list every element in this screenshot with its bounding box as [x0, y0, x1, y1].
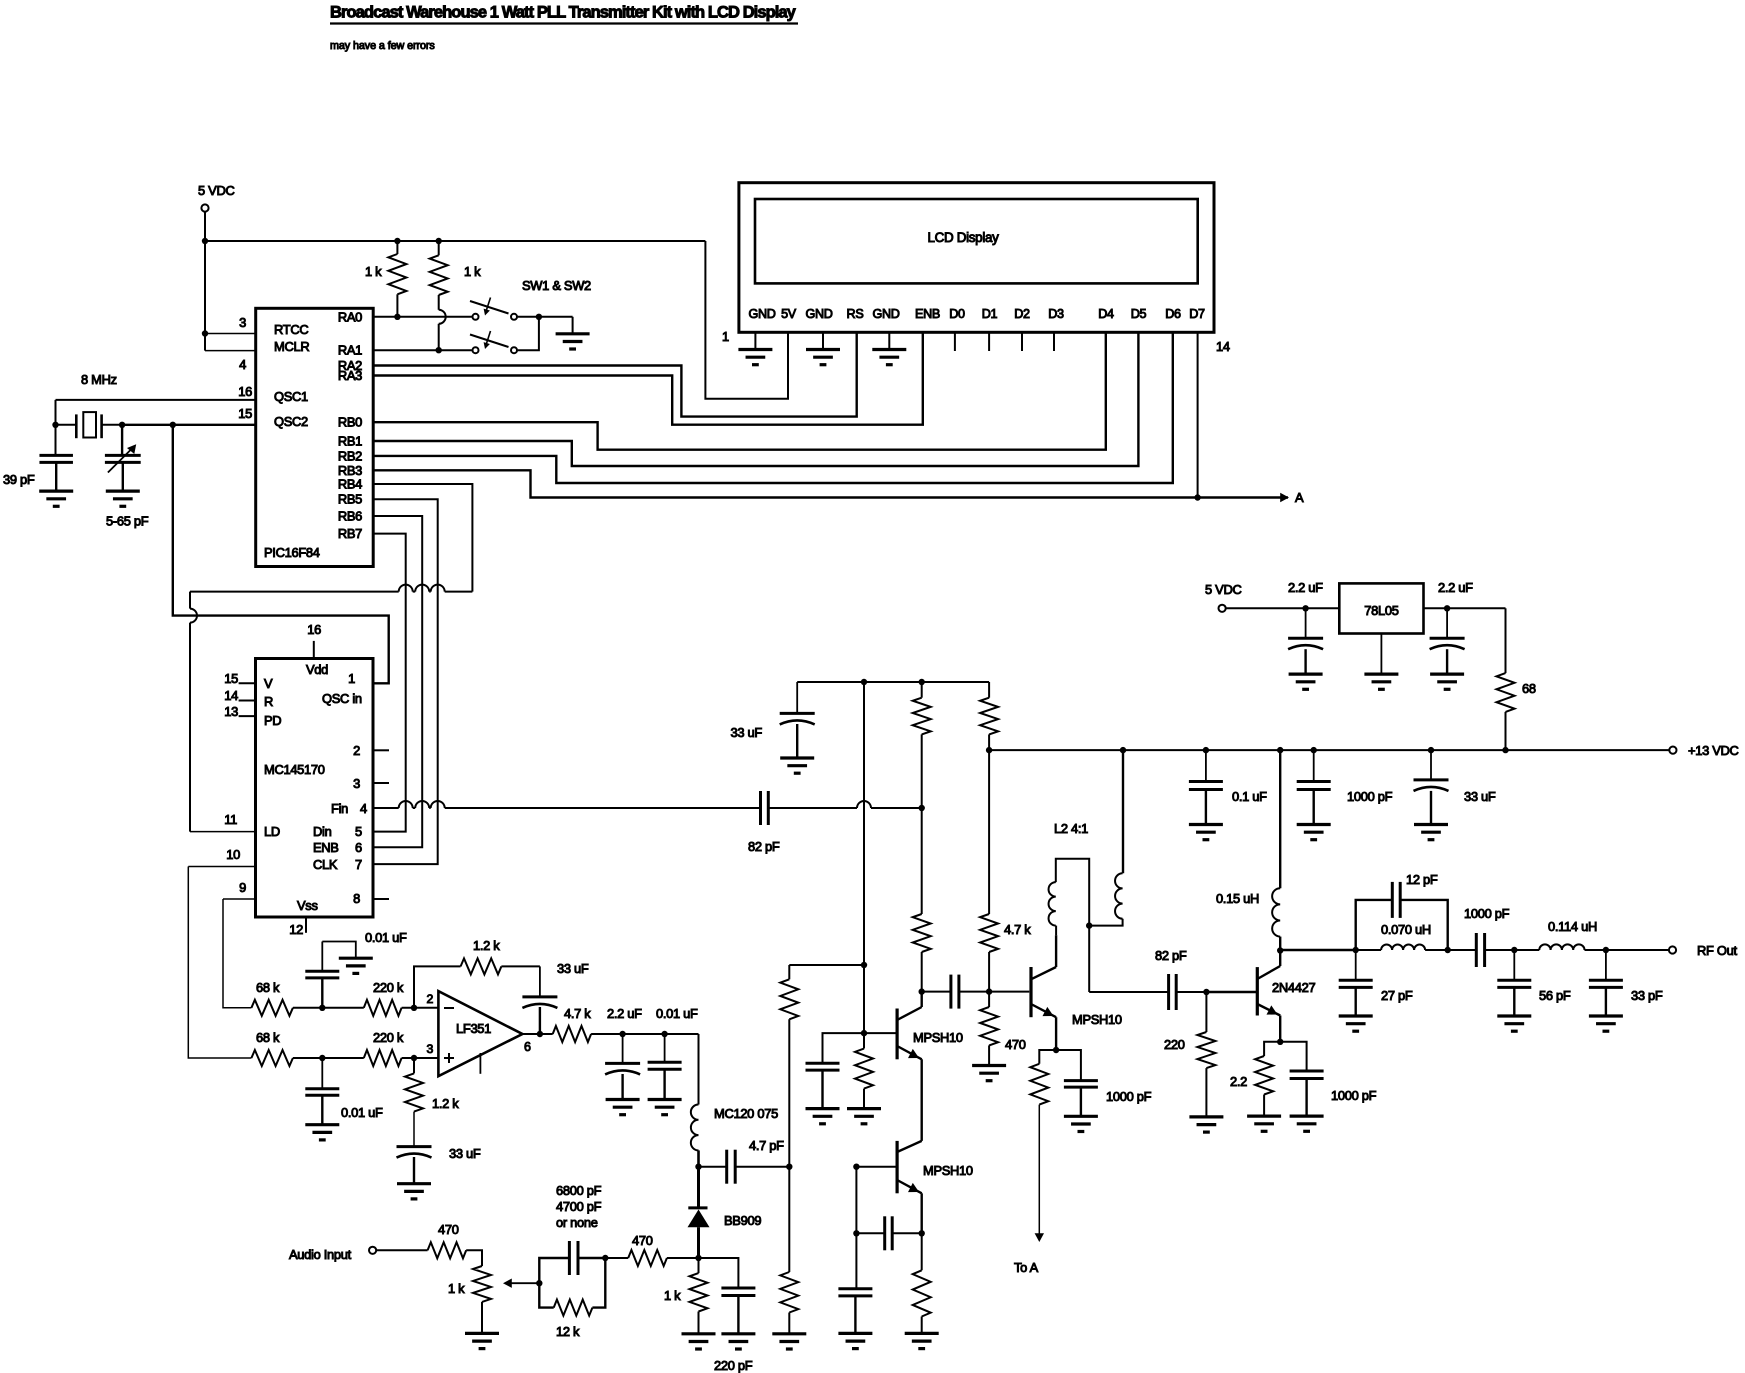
wire RB4 to LD (pin 11) with hops: [373, 484, 472, 592]
resistor (buffer emitter to A): [1039, 1050, 1056, 1064]
wire buffer emitter: [1055, 1017, 1057, 1050]
svg-text:33 uF: 33 uF: [557, 961, 589, 976]
wire +13 VDC rail: [989, 749, 1669, 751]
svg-text:2N4427: 2N4427: [1272, 980, 1315, 995]
LCD D3 stub: [1053, 332, 1055, 351]
wire RB6 to ENB (pin 6): [373, 516, 422, 847]
svg-text:or none: or none: [556, 1215, 598, 1230]
node tank left: [1353, 947, 1359, 953]
ground (33 uF rail): [1414, 823, 1448, 826]
svg-text:1000 pF: 1000 pF: [1347, 789, 1393, 804]
svg-text:RB0: RB0: [338, 415, 362, 430]
wire 5V feed down to LCD: [705, 241, 788, 399]
svg-text:82 pF: 82 pF: [1155, 948, 1187, 963]
svg-text:LCD Display: LCD Display: [927, 230, 999, 245]
svg-text:2: 2: [353, 743, 360, 758]
node 5V rail / RTCC-MCLR branch: [202, 238, 208, 244]
wire to node: [293, 1057, 364, 1059]
LCD D2 stub: [1021, 332, 1023, 351]
LCD GND pin 1 stub: [754, 332, 756, 349]
svg-text:L2 4:1: L2 4:1: [1054, 821, 1088, 836]
svg-text:GND: GND: [872, 307, 899, 321]
LCD D1 stub: [988, 332, 990, 351]
svg-text:1000 pF: 1000 pF: [1464, 906, 1510, 921]
pin 14 R stub: [239, 700, 256, 702]
svg-text:78L05: 78L05: [1364, 603, 1398, 618]
svg-text:6800 pF: 6800 pF: [556, 1183, 602, 1198]
svg-text:1: 1: [348, 671, 355, 686]
wire RB0 to LCD D4: [373, 332, 1106, 449]
ground (Vss cap): [339, 957, 373, 960]
wire 220k to op-amp inverting input: [402, 1007, 439, 1009]
svg-text:56 pF: 56 pF: [1539, 988, 1571, 1003]
pin 13 PD stub: [239, 715, 256, 717]
svg-text:5V: 5V: [781, 307, 797, 321]
svg-text:4700 pF: 4700 pF: [556, 1199, 602, 1214]
svg-text:8: 8: [353, 891, 360, 906]
svg-text:11: 11: [224, 812, 237, 827]
wire R2 to RA1 with hop over RA0 wire: [438, 324, 440, 350]
ground (39 pF): [39, 490, 73, 493]
ground (220): [1189, 1115, 1223, 1118]
svg-text:220 k: 220 k: [373, 1030, 404, 1045]
svg-text:470: 470: [632, 1233, 653, 1248]
svg-text:7: 7: [355, 857, 362, 872]
wire MCLR pin 4: [205, 350, 256, 352]
svg-text:QSC1: QSC1: [274, 389, 308, 404]
ground (base bypass): [806, 1107, 840, 1110]
resistor (osc emitter): [921, 1233, 923, 1270]
IC U2 MC145170 body: [256, 659, 374, 918]
svg-text:4: 4: [360, 801, 367, 816]
svg-text:RB1: RB1: [338, 434, 362, 449]
wire RA0 to SW1: [373, 316, 472, 318]
ground (2.2): [1247, 1114, 1281, 1117]
svg-text:1: 1: [722, 329, 729, 344]
wire crystal node down to MC145170 OSC in: [173, 425, 389, 684]
node wiper: [536, 1280, 542, 1286]
wire 82 pF to oscillator base node with hop: [768, 807, 857, 809]
node rail 68: [1502, 747, 1508, 753]
svg-text:14: 14: [1216, 339, 1230, 354]
svg-text:33 uF: 33 uF: [731, 725, 763, 740]
svg-text:2.2 uF: 2.2 uF: [1438, 580, 1473, 595]
svg-text:RB5: RB5: [338, 492, 362, 507]
LCD D0 stub: [954, 332, 956, 351]
L2 primary winding: [1122, 750, 1124, 873]
wire 78L05 input: [1424, 607, 1506, 609]
wire collector to 82pF node: [921, 992, 923, 1007]
svg-text:15: 15: [224, 671, 238, 686]
svg-text:12 pF: 12 pF: [1406, 872, 1438, 887]
svg-text:0.01 uF: 0.01 uF: [341, 1105, 383, 1120]
wire 4.7k to caps: [591, 1033, 698, 1035]
wire to switch ground: [572, 317, 574, 334]
svg-text:LD: LD: [264, 824, 280, 839]
svg-text:GND: GND: [748, 307, 775, 321]
svg-text:3: 3: [426, 1042, 433, 1056]
svg-text:1 k: 1 k: [365, 264, 382, 279]
wire crystal right lead: [102, 424, 123, 426]
ground (5-65 pF): [106, 490, 140, 493]
node rail/collector-chain: [919, 679, 925, 685]
ground (2.2 uF out): [1289, 672, 1323, 675]
resistor (osc collector load): [921, 682, 923, 698]
ground (33 pF): [1589, 1014, 1623, 1017]
ground (33 uF osc): [780, 756, 814, 759]
node bias split: [861, 962, 867, 968]
wire 5VDC terminal to rail: [204, 212, 206, 242]
IC U4 78L05 body: [1339, 583, 1423, 633]
node rail 0.1uF: [1203, 747, 1209, 753]
wire PA output line: [1280, 949, 1356, 951]
svg-text:LF351: LF351: [456, 1021, 491, 1036]
wire bias down to base node: [863, 965, 865, 1033]
svg-text:5 VDC: 5 VDC: [1205, 582, 1241, 597]
svg-text:MC120 075: MC120 075: [714, 1106, 778, 1121]
svg-text:2.2 uF: 2.2 uF: [1288, 580, 1323, 595]
node emitter/feedback: [919, 1230, 925, 1236]
svg-text:R: R: [264, 694, 273, 709]
resistor (osc emitter chain upper): [788, 965, 790, 979]
svg-text:0.01 uF: 0.01 uF: [365, 930, 407, 945]
svg-text:2: 2: [426, 992, 433, 1006]
svg-text:D7: D7: [1189, 307, 1205, 321]
svg-text:MC145170: MC145170: [264, 762, 325, 777]
ground (2.2 uF): [606, 1098, 640, 1101]
node 2.2uF: [619, 1031, 625, 1037]
node osc base bias: [861, 1030, 867, 1036]
svg-text:5 VDC: 5 VDC: [198, 183, 234, 198]
78L05 ground pin: [1380, 634, 1382, 675]
svg-text:Vss: Vss: [297, 898, 318, 913]
switch SW2: [473, 347, 479, 353]
svg-text:Vdd: Vdd: [306, 662, 328, 677]
svg-text:MPSH10: MPSH10: [1072, 1012, 1122, 1027]
wire emitter to feedback divider: [921, 1193, 923, 1233]
svg-text:PD: PD: [264, 713, 281, 728]
ground (lower filter cap): [305, 1123, 339, 1126]
ground (1000 pF rail): [1297, 823, 1331, 826]
ground (78L05): [1364, 672, 1398, 675]
wire RB1 to LCD D5: [373, 332, 1138, 466]
switch SW1: [473, 314, 479, 320]
pin 3 stub: [373, 782, 389, 784]
node emitter chain / 4.7 pF: [786, 1164, 792, 1170]
svg-text:0.114 uH: 0.114 uH: [1548, 919, 1597, 934]
pin 2 stub: [373, 749, 389, 751]
ground (LCD pin3): [806, 348, 840, 351]
terminal RF Out: [1669, 946, 1676, 953]
svg-text:V: V: [264, 676, 273, 691]
wire RB3 to node A line: [373, 470, 1288, 497]
wire bias to emitter resistor: [789, 964, 864, 966]
svg-text:12 k: 12 k: [556, 1324, 580, 1339]
wire RA2 to LCD RS: [373, 332, 857, 416]
ground (2.2 uF in): [1430, 672, 1464, 675]
svg-text:D1: D1: [982, 307, 998, 321]
svg-text:0.01 uF: 0.01 uF: [656, 1006, 698, 1021]
svg-text:MPSH10: MPSH10: [923, 1163, 973, 1178]
svg-text:33 pF: 33 pF: [1631, 988, 1663, 1003]
node switch common: [536, 314, 542, 320]
node L2 tap: [1086, 922, 1092, 928]
wire To A: [1038, 1105, 1040, 1236]
ground (0.01 uF tune): [648, 1098, 682, 1101]
wire RA3 to LCD ENB: [373, 332, 923, 424]
node R2/RA1: [436, 347, 442, 353]
node 2.2uF out: [1302, 605, 1308, 611]
node buffer emitter: [1053, 1047, 1059, 1053]
node 0.01uF: [661, 1031, 667, 1037]
wire 220k to op-amp non-inverting input: [402, 1057, 439, 1059]
svg-text:15: 15: [238, 406, 252, 421]
wire SW1 output: [518, 316, 573, 318]
svg-text:A: A: [1295, 490, 1304, 505]
wire buffer collector to L2: [1055, 935, 1057, 967]
svg-text:3: 3: [239, 315, 246, 330]
L2 secondary winding: [1049, 882, 1056, 926]
node osc output: [919, 988, 925, 994]
svg-text:+13 VDC: +13 VDC: [1688, 743, 1739, 758]
svg-text:0.070 uH: 0.070 uH: [1381, 922, 1431, 937]
node R1/RA0: [394, 314, 400, 320]
wire base bias vertical with hop over Fin: [863, 682, 865, 965]
capacitor (osc base bypass): [823, 1033, 865, 1063]
svg-text:1.2 k: 1.2 k: [432, 1096, 459, 1111]
node QSC2 to divider tap: [170, 422, 176, 428]
wire crystal left lead: [56, 424, 77, 426]
ground (33 uF): [397, 1182, 431, 1185]
wire RTCC pin 3: [205, 333, 256, 335]
LCD screen inner box: [755, 199, 1198, 283]
svg-text:16: 16: [307, 622, 321, 637]
wire LD pin 11: [190, 831, 256, 833]
resistor (osc collector lower): [921, 808, 923, 914]
node rail/base-bias: [861, 679, 867, 685]
node 2.2uF in: [1444, 605, 1450, 611]
pot wiper arrow: [505, 1282, 539, 1284]
wire output: [522, 1033, 552, 1035]
node R1 top: [394, 238, 400, 244]
wire audio to 470: [376, 1249, 427, 1251]
node +13V rail feed: [986, 747, 992, 753]
node rail 1000pF: [1311, 747, 1317, 753]
terminal +13 VDC: [1669, 747, 1676, 754]
node op-amp plus / 1.2k: [411, 1055, 417, 1061]
capacitor (feedback divider): [855, 1167, 857, 1234]
svg-text:1.2 k: 1.2 k: [473, 938, 500, 953]
svg-text:1000 pF: 1000 pF: [1331, 1088, 1377, 1103]
svg-text:RA3: RA3: [338, 368, 362, 383]
ground (osc base bias): [847, 1107, 881, 1110]
ground (osc emitter resistor): [905, 1332, 939, 1335]
svg-text:D2: D2: [1014, 307, 1030, 321]
svg-text:2.2: 2.2: [1230, 1074, 1247, 1089]
svg-text:QSC in: QSC in: [322, 691, 362, 706]
svg-text:1000 pF: 1000 pF: [1106, 1089, 1152, 1104]
node varactor / 4.7 pF: [695, 1164, 701, 1170]
svg-text:D0: D0: [949, 307, 965, 321]
ground (1 k): [682, 1332, 716, 1335]
ground (pot): [465, 1332, 499, 1335]
ground (27 pF): [1339, 1014, 1373, 1017]
svg-text:RS: RS: [847, 307, 864, 321]
svg-text:1 k: 1 k: [464, 264, 481, 279]
op-amp U3 LF351: [438, 991, 522, 1076]
svg-text:RA1: RA1: [338, 343, 362, 358]
node audio RC: [602, 1255, 608, 1261]
svg-text:MPSH10: MPSH10: [913, 1030, 963, 1045]
svg-text:5: 5: [355, 824, 362, 839]
svg-text:4.7 k: 4.7 k: [564, 1006, 591, 1021]
title underline: [330, 22, 798, 24]
node PA base: [1203, 989, 1209, 995]
ground (LCD pin5): [872, 348, 906, 351]
svg-text:33 uF: 33 uF: [1464, 789, 1496, 804]
svg-text:Broadcast Warehouse 1 Watt PLL: Broadcast Warehouse 1 Watt PLL Transmitt…: [330, 4, 797, 22]
pin 8 stub: [373, 898, 389, 900]
IC U1 PIC16F84 body: [256, 308, 374, 566]
ground (56 pF): [1497, 1014, 1531, 1017]
svg-text:4.7 pF: 4.7 pF: [749, 1138, 784, 1153]
node osc base / bypass chain: [853, 1164, 859, 1170]
node filter mid: [1511, 947, 1517, 953]
node crystal right: [119, 422, 125, 428]
node osc collector chain / Fin: [919, 805, 925, 811]
crystal X1 8MHz: [75, 414, 78, 438]
wire LCD D7 stub: [1197, 332, 1199, 497]
op-amp power stub: [479, 1053, 481, 1074]
wire RB2 to LCD D6: [373, 332, 1173, 483]
ground (PA emitter cap): [1290, 1114, 1324, 1117]
wire pin 10 down to filter: [188, 866, 255, 868]
node op-amp minus / feedback: [411, 1005, 417, 1011]
ground (feedback cap): [838, 1332, 872, 1335]
svg-text:9: 9: [239, 880, 246, 895]
node op-amp output: [537, 1031, 543, 1037]
svg-text:MCLR: MCLR: [274, 339, 309, 354]
svg-text:D3: D3: [1048, 307, 1064, 321]
wire RA1 to SW2: [373, 349, 472, 351]
svg-text:QSC2: QSC2: [274, 414, 308, 429]
node A arrow: [1280, 493, 1289, 502]
svg-text:RB7: RB7: [338, 526, 362, 541]
wire RB7 to Din (pin 5): [373, 534, 406, 832]
svg-text:PIC16F84: PIC16F84: [264, 545, 320, 560]
svg-text:BB909: BB909: [724, 1213, 761, 1228]
wire base to 2N4427: [1206, 991, 1257, 993]
wire PA emitter: [1279, 1016, 1281, 1042]
node PA emitter: [1277, 1039, 1283, 1045]
svg-text:220: 220: [1164, 1037, 1185, 1052]
svg-text:68 k: 68 k: [256, 980, 280, 995]
ground (470): [972, 1064, 1006, 1067]
svg-text:RB6: RB6: [338, 509, 362, 524]
node PA output: [1277, 947, 1283, 953]
svg-text:6: 6: [355, 840, 362, 855]
node RTCC branch: [202, 330, 208, 336]
wire PA collector: [1279, 951, 1281, 967]
svg-text:Din: Din: [313, 824, 332, 839]
svg-text:8 MHz: 8 MHz: [81, 372, 117, 387]
node crystal left: [52, 422, 58, 428]
capacitor (feedback to ground): [855, 1233, 857, 1288]
svg-text:16: 16: [238, 384, 252, 399]
node rail choke: [1277, 747, 1283, 753]
svg-text:6: 6: [524, 1040, 531, 1054]
svg-text:RB4: RB4: [338, 477, 362, 492]
LCD GND pin 5 stub: [888, 332, 890, 349]
wire QSC1 down to crystal: [55, 400, 57, 456]
wire 78L05 output: [1226, 607, 1340, 609]
wire pin 9 down to filter: [223, 898, 256, 900]
ground (220 pF): [721, 1332, 755, 1335]
svg-text:RB2: RB2: [338, 448, 362, 463]
node R2 top: [436, 238, 442, 244]
capacitor 82 pF (osc to buffer): [922, 991, 951, 993]
svg-text:RF Out: RF Out: [1697, 943, 1737, 958]
svg-text:D6: D6: [1165, 307, 1181, 321]
svg-text:3: 3: [353, 776, 360, 791]
svg-text:may have a few errors: may have a few errors: [330, 40, 435, 52]
svg-text:0.1 uF: 0.1 uF: [1232, 789, 1267, 804]
svg-text:1 k: 1 k: [448, 1281, 465, 1296]
LCD module outer box: [739, 183, 1214, 333]
wire to RF Out: [1606, 949, 1669, 951]
svg-text:33 uF: 33 uF: [449, 1146, 481, 1161]
svg-text:10: 10: [226, 847, 240, 862]
svg-text:RA0: RA0: [338, 309, 362, 324]
svg-text:D4: D4: [1098, 307, 1114, 321]
svg-text:5-65 pF: 5-65 pF: [106, 514, 149, 529]
node filter out: [1603, 947, 1609, 953]
svg-text:68: 68: [1522, 681, 1536, 696]
svg-text:0.15 uH: 0.15 uH: [1216, 891, 1259, 906]
wire QSC2 pin 15: [122, 424, 256, 426]
svg-text:To A: To A: [1014, 1260, 1039, 1275]
svg-text:4: 4: [239, 357, 246, 372]
wire to node: [293, 1007, 364, 1009]
svg-text:4.7 k: 4.7 k: [1004, 922, 1031, 937]
svg-text:RTCC: RTCC: [274, 322, 308, 337]
wire oscillator top rail: [797, 681, 989, 683]
pin 16 Vdd stub: [313, 641, 315, 659]
svg-text:12: 12: [289, 922, 303, 937]
resistor (osc emitter chain lower): [788, 1167, 790, 1272]
wire crystal right to trimmer: [121, 425, 123, 456]
ground (LCD pin1): [738, 348, 772, 351]
svg-text:68 k: 68 k: [256, 1030, 280, 1045]
resistor (osc base to ground): [863, 1033, 865, 1048]
wire RB5 to CLK (pin 7): [373, 499, 438, 864]
node A / LCD D7: [1194, 494, 1200, 500]
wire 470 to pot: [466, 1250, 482, 1266]
svg-text:ENB: ENB: [915, 307, 940, 321]
ground (0.1 uF): [1189, 823, 1223, 826]
wire SW2 output up to common: [518, 317, 539, 350]
wire L2 tap down to 82 pF: [1088, 926, 1090, 992]
svg-text:220 k: 220 k: [373, 980, 404, 995]
LCD GND pin 3 stub: [822, 332, 824, 349]
svg-text:ENB: ENB: [313, 840, 339, 855]
node rail L2: [1120, 747, 1126, 753]
svg-text:Audio Input: Audio Input: [289, 1247, 352, 1262]
resistor (rail dropper): [988, 682, 990, 698]
svg-text:14: 14: [224, 688, 238, 703]
node varactor bias: [695, 1255, 701, 1261]
svg-text:1 k: 1 k: [664, 1288, 681, 1303]
